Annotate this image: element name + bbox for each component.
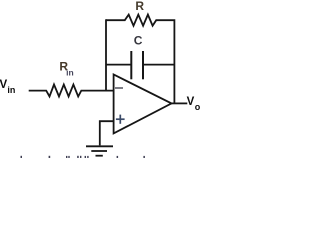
svg-text:C: C <box>134 34 143 48</box>
svg-text:R: R <box>135 0 144 13</box>
svg-text:in: in <box>7 85 15 95</box>
svg-text:in: in <box>66 68 74 78</box>
svg-text:V: V <box>0 79 8 91</box>
svg-text:V: V <box>187 96 195 108</box>
svg-text:o: o <box>195 102 201 112</box>
